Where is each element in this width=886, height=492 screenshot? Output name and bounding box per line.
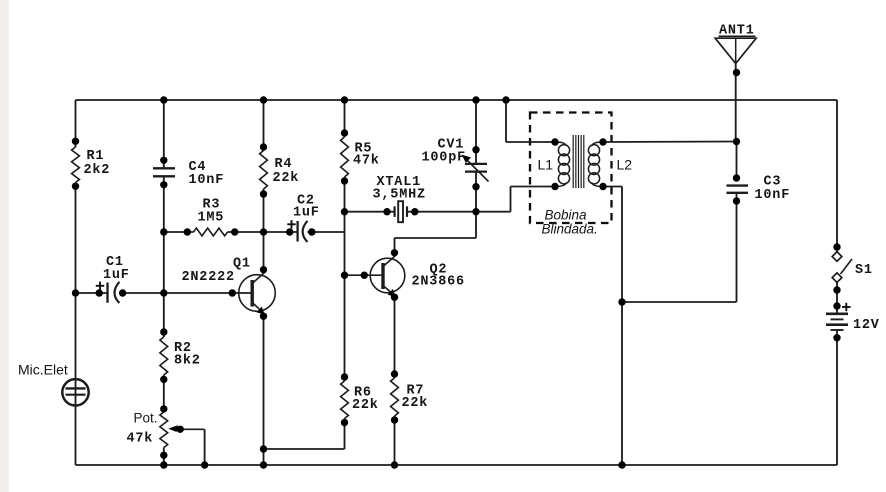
svg-text:1uF: 1uF [103, 268, 130, 283]
svg-text:Blindada.: Blindada. [542, 222, 598, 237]
svg-text:8k2: 8k2 [174, 354, 201, 369]
svg-text:R4: R4 [275, 157, 293, 172]
svg-text:12V: 12V [853, 318, 880, 333]
svg-text:Bobina: Bobina [545, 208, 588, 223]
svg-text:L2: L2 [617, 157, 633, 173]
svg-text:47k: 47k [353, 154, 380, 169]
svg-text:Q1: Q1 [233, 257, 251, 272]
svg-text:Pot.: Pot. [134, 411, 158, 426]
svg-text:1uF: 1uF [293, 206, 320, 221]
svg-text:Mic.Elet: Mic.Elet [18, 362, 68, 378]
svg-text:S1: S1 [855, 263, 873, 278]
svg-text:2k2: 2k2 [84, 163, 111, 178]
svg-text:1M5: 1M5 [198, 211, 225, 226]
svg-text:2N3866: 2N3866 [412, 275, 465, 290]
svg-text:47k: 47k [127, 432, 154, 447]
svg-text:R1: R1 [87, 149, 105, 164]
svg-text:10nF: 10nF [189, 173, 225, 188]
svg-text:22k: 22k [352, 398, 379, 413]
svg-text:3,5MHZ: 3,5MHZ [373, 188, 426, 203]
svg-text:10nF: 10nF [755, 188, 791, 203]
svg-text:2N2222: 2N2222 [182, 270, 235, 285]
svg-text:22k: 22k [402, 396, 429, 411]
svg-text:22k: 22k [273, 171, 300, 186]
svg-text:L1: L1 [538, 157, 554, 173]
svg-text:100pF: 100pF [422, 151, 467, 166]
